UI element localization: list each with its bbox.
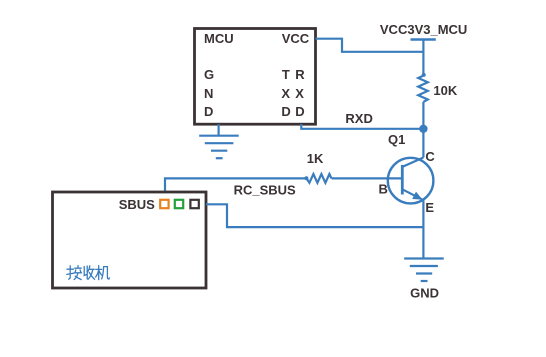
junction dot	[419, 125, 427, 133]
svg-text:GND: GND	[410, 286, 439, 301]
SBUS pad black	[190, 200, 198, 208]
svg-text:Q1: Q1	[388, 132, 405, 147]
pin TXD label	[281, 67, 290, 119]
svg-text:RC_SBUS: RC_SBUS	[234, 183, 296, 198]
svg-text:G: G	[204, 67, 214, 82]
SBUS pad orange	[160, 200, 168, 208]
wire 1K to base	[332, 177, 403, 179]
svg-text:RXD: RXD	[345, 111, 372, 126]
transistor Q1	[388, 158, 434, 204]
wire VCC pin to power rail	[316, 39, 424, 52]
svg-text:D: D	[295, 104, 304, 119]
svg-text:VCC3V3_MCU: VCC3V3_MCU	[380, 22, 467, 37]
svg-text:MCU: MCU	[204, 31, 234, 46]
svg-text:X: X	[281, 86, 290, 101]
wire junction to collector	[422, 129, 424, 158]
svg-text:T: T	[282, 67, 290, 82]
ground symbol left	[199, 136, 239, 159]
svg-text:B: B	[379, 182, 388, 197]
svg-text:10K: 10K	[433, 83, 457, 98]
svg-text:1K: 1K	[307, 151, 324, 166]
resistor R1 10K	[418, 73, 428, 102]
receiver block	[53, 192, 207, 288]
svg-text:X: X	[295, 86, 304, 101]
pin GND label	[204, 67, 214, 119]
receiver name 接收机	[67, 266, 110, 280]
svg-text:E: E	[425, 200, 434, 215]
MCU block U1	[195, 29, 316, 125]
wire MCU GND stem	[218, 124, 220, 136]
wire RC_SBUS	[165, 178, 306, 190]
svg-text:C: C	[425, 149, 435, 164]
svg-text:D: D	[204, 104, 213, 119]
svg-text:SBUS: SBUS	[119, 197, 155, 212]
svg-text:R: R	[295, 67, 305, 82]
resistor R2 1K	[304, 174, 331, 183]
pin RXD label	[295, 67, 305, 119]
power symbol VCC3V3_MCU bar	[411, 38, 436, 41]
ground symbol GND right	[404, 259, 444, 282]
SBUS pad green	[175, 200, 183, 208]
wire resistor to junction	[422, 102, 424, 129]
wire RXD from MCU	[301, 124, 423, 129]
svg-text:N: N	[204, 86, 213, 101]
svg-text:D: D	[281, 104, 290, 119]
wire SBUS to emitter	[206, 204, 423, 227]
wire power stem	[422, 40, 424, 76]
wire emitter down	[422, 200, 424, 259]
svg-text:VCC: VCC	[282, 31, 310, 46]
